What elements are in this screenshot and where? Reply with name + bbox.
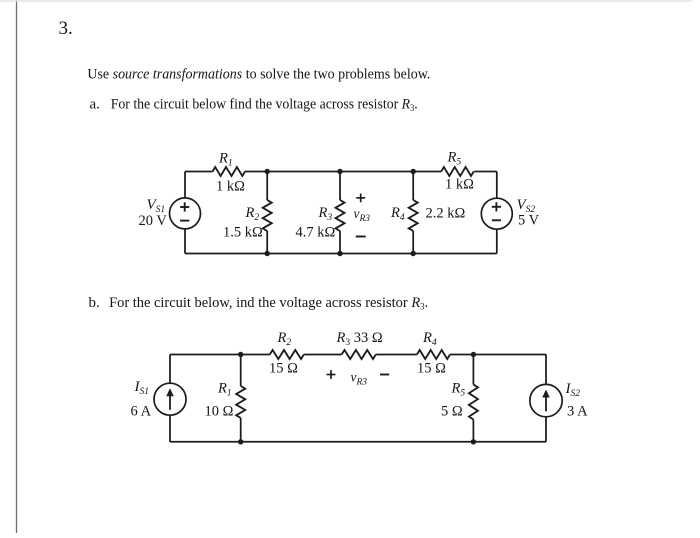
resistor R3 (339, 172, 341, 201)
junction R2 top (265, 169, 270, 174)
svg-text:R3: R3 (318, 205, 333, 223)
junction R1 top (b) (238, 352, 243, 357)
vR3 polarity minus (b) (380, 374, 389, 376)
svg-text:5 V: 5 V (518, 213, 540, 229)
wire right branch circuit b (545, 355, 547, 385)
resistor R4 (412, 172, 414, 201)
svg-text:15 Ω: 15 Ω (269, 361, 298, 377)
current source IS1 (154, 383, 186, 415)
svg-text:R2: R2 (277, 330, 292, 348)
svg-text:6 A: 6 A (131, 404, 152, 420)
resistor R5 (b) (472, 355, 474, 385)
wire left branch circuit a (184, 172, 186, 199)
svg-text:10 Ω: 10 Ω (205, 404, 234, 420)
wire bottom rail circuit b (170, 441, 546, 443)
svg-text:b.: b. (89, 295, 100, 311)
svg-text:1 kΩ: 1 kΩ (216, 178, 245, 194)
vR3 polarity plus (a) (356, 197, 365, 199)
svg-text:For the circuit below, ind the: For the circuit below, ind the voltage a… (109, 295, 428, 312)
svg-text:5 Ω: 5 Ω (441, 404, 463, 420)
svg-text:15 Ω: 15 Ω (417, 361, 446, 377)
voltage source VS2 (481, 198, 512, 229)
svg-text:R5: R5 (451, 381, 466, 399)
svg-text:3.: 3. (59, 18, 73, 39)
current source IS2 (530, 384, 562, 416)
junction R3 top (337, 169, 342, 174)
wire right branch circuit a (496, 172, 498, 199)
wire bottom rail circuit a (185, 253, 497, 255)
svg-text:R1: R1 (218, 151, 233, 169)
svg-text:IS1: IS1 (134, 379, 150, 397)
svg-text:Use source transformations to: Use source transformations to solve the … (87, 66, 430, 82)
svg-text:For the circuit below find the: For the circuit below find the voltage a… (111, 96, 418, 113)
svg-text:1.5 kΩ: 1.5 kΩ (223, 225, 263, 241)
resistor R2 (266, 172, 268, 201)
junction R5 top (b) (471, 352, 476, 357)
svg-text:2.2 kΩ: 2.2 kΩ (426, 206, 466, 222)
wire top rail circuit a (185, 171, 213, 173)
wire top rail circuit b (170, 354, 270, 356)
vR3 polarity plus (b) (327, 374, 336, 376)
svg-text:3 A: 3 A (567, 404, 588, 420)
junction R1 bottom (b) (238, 439, 243, 444)
vR3 polarity minus (a) (356, 236, 366, 238)
svg-text:R4: R4 (390, 205, 405, 223)
voltage source VS1 (170, 198, 201, 229)
junction R5 bottom (b) (471, 439, 476, 444)
resistor R4 (b) (417, 350, 450, 359)
svg-text:vR3: vR3 (354, 206, 371, 224)
svg-text:20 V: 20 V (139, 213, 168, 229)
svg-text:R4: R4 (422, 330, 437, 348)
junction R3 bottom (337, 251, 342, 256)
svg-text:vR3: vR3 (351, 370, 368, 388)
svg-text:4.7 kΩ: 4.7 kΩ (296, 225, 336, 241)
resistor R1 (213, 167, 246, 176)
junction R4 top (411, 169, 416, 174)
svg-text:1 kΩ: 1 kΩ (445, 177, 474, 193)
svg-text:R3 33 Ω: R3 33 Ω (336, 330, 383, 348)
resistor R5 (441, 167, 474, 176)
svg-text:R1: R1 (217, 381, 232, 399)
wire left branch circuit b (169, 355, 171, 384)
resistor R2 (b) (270, 350, 304, 359)
svg-text:a.: a. (90, 96, 100, 112)
svg-text:IS2: IS2 (565, 381, 581, 399)
junction R2 bottom (265, 251, 270, 256)
junction R4 bottom (411, 251, 416, 256)
resistor R3 (b) (342, 350, 376, 359)
resistor R1 (b) (240, 355, 242, 387)
svg-text:R5: R5 (447, 150, 462, 168)
svg-text:R2: R2 (245, 205, 260, 223)
